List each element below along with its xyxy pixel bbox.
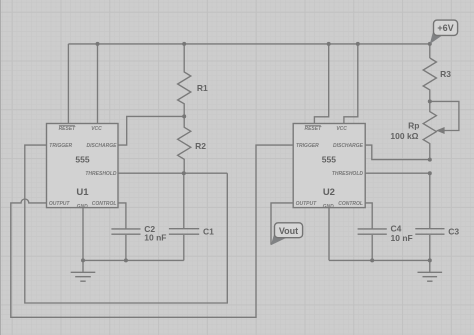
resistor R3 <box>423 58 451 101</box>
svg-text:+6V: +6V <box>437 23 453 33</box>
wire U2 discharge link <box>365 145 430 160</box>
junction C4 bottom / gnd rail <box>370 258 374 262</box>
wire U1 gnd pin <box>82 208 84 261</box>
wire right ground rail <box>329 259 430 261</box>
wire U2 control to C4 <box>365 203 372 229</box>
junction C2 bottom / gnd rail <box>124 258 128 262</box>
node +6V power flag <box>430 20 458 44</box>
svg-text:OUTPUT: OUTPUT <box>296 201 318 207</box>
capacitor C4 <box>358 223 413 260</box>
svg-text:VCC: VCC <box>91 126 102 132</box>
wire +6V to R3 drop <box>429 44 431 58</box>
wire U1 trigger to threshold loop <box>25 145 228 303</box>
svg-text:RESET: RESET <box>304 126 322 132</box>
svg-text:Rp: Rp <box>408 121 419 131</box>
wire U2 output (Vout) <box>271 203 293 245</box>
svg-text:DISCHARGE: DISCHARGE <box>333 143 364 149</box>
ground (left, under U1) <box>71 260 96 281</box>
wire U1 threshold line <box>118 172 227 174</box>
junction R2-C1 / U1 threshold node <box>182 171 186 175</box>
wire U2 reset drop <box>314 44 328 124</box>
svg-text:C1: C1 <box>203 226 214 236</box>
node Vout flag <box>271 223 303 245</box>
svg-text:THRESHOLD: THRESHOLD <box>332 171 364 177</box>
junction U2 threshold / C3 node <box>428 171 432 175</box>
wire top +6V rail <box>68 43 429 45</box>
svg-text:U2: U2 <box>323 187 335 198</box>
svg-text:DISCHARGE: DISCHARGE <box>86 143 117 149</box>
svg-text:R1: R1 <box>197 83 208 93</box>
svg-text:TRIGGER: TRIGGER <box>49 143 72 149</box>
svg-text:R3: R3 <box>440 69 451 79</box>
junction U1 VCC / +6V rail <box>96 42 100 46</box>
svg-text:U1: U1 <box>76 187 89 198</box>
svg-text:10 nF: 10 nF <box>391 233 413 243</box>
capacitor C3 <box>415 173 459 260</box>
junction R3-Rp / wiper <box>428 99 432 103</box>
svg-text:OUTPUT: OUTPUT <box>49 201 71 207</box>
junction R1-R2 / U1 discharge node <box>182 114 186 118</box>
wire U1 reset drop <box>67 44 69 124</box>
svg-text:C3: C3 <box>448 227 459 237</box>
svg-text:R2: R2 <box>195 141 206 151</box>
IC U2 555 timer <box>293 124 365 210</box>
svg-text:TRIGGER: TRIGGER <box>296 143 319 149</box>
svg-text:CONTROL: CONTROL <box>92 201 117 207</box>
svg-text:CONTROL: CONTROL <box>338 201 363 207</box>
svg-text:THRESHOLD: THRESHOLD <box>85 171 117 177</box>
junction R1 top / +6V rail <box>182 42 186 46</box>
wire U1 control to C2 <box>118 203 126 229</box>
wire U2 threshold line <box>365 172 430 174</box>
svg-text:Vout: Vout <box>279 226 298 236</box>
svg-text:10 nF: 10 nF <box>144 233 166 243</box>
svg-text:555: 555 <box>75 155 89 165</box>
svg-text:C4: C4 <box>391 223 402 233</box>
wire left ground rail <box>83 259 184 261</box>
junction U2 reset / +6V rail <box>327 42 331 46</box>
junction C3 bottom / gnd rail <box>428 258 432 262</box>
svg-text:555: 555 <box>322 155 336 165</box>
junction U1 gnd rail <box>81 258 85 262</box>
svg-text:RESET: RESET <box>59 126 77 132</box>
potentiometer Rp <box>390 101 458 159</box>
svg-text:GND: GND <box>323 204 335 210</box>
resistor R1 <box>178 44 208 117</box>
wire U2 vcc drop <box>344 44 358 124</box>
junction U2 VCC / +6V rail <box>356 42 360 46</box>
svg-text:GND: GND <box>77 204 89 210</box>
capacitor C1 <box>169 173 214 260</box>
wire U1 output to U2 trigger (with hop) <box>11 145 293 317</box>
svg-text:VCC: VCC <box>336 126 347 132</box>
wire U1 discharge link <box>118 116 184 145</box>
svg-text:100 kΩ: 100 kΩ <box>390 131 418 141</box>
wire U2 gnd pin <box>328 208 330 261</box>
ground (right, under C3) <box>418 260 443 281</box>
junction +6V node / R3 top <box>428 42 432 46</box>
IC U1 555 timer <box>47 124 119 210</box>
resistor R2 <box>178 116 207 173</box>
capacitor C2 <box>111 224 166 261</box>
junction Rp bottom / U2 discharge node <box>428 158 432 162</box>
wire U1 vcc drop <box>97 44 99 124</box>
